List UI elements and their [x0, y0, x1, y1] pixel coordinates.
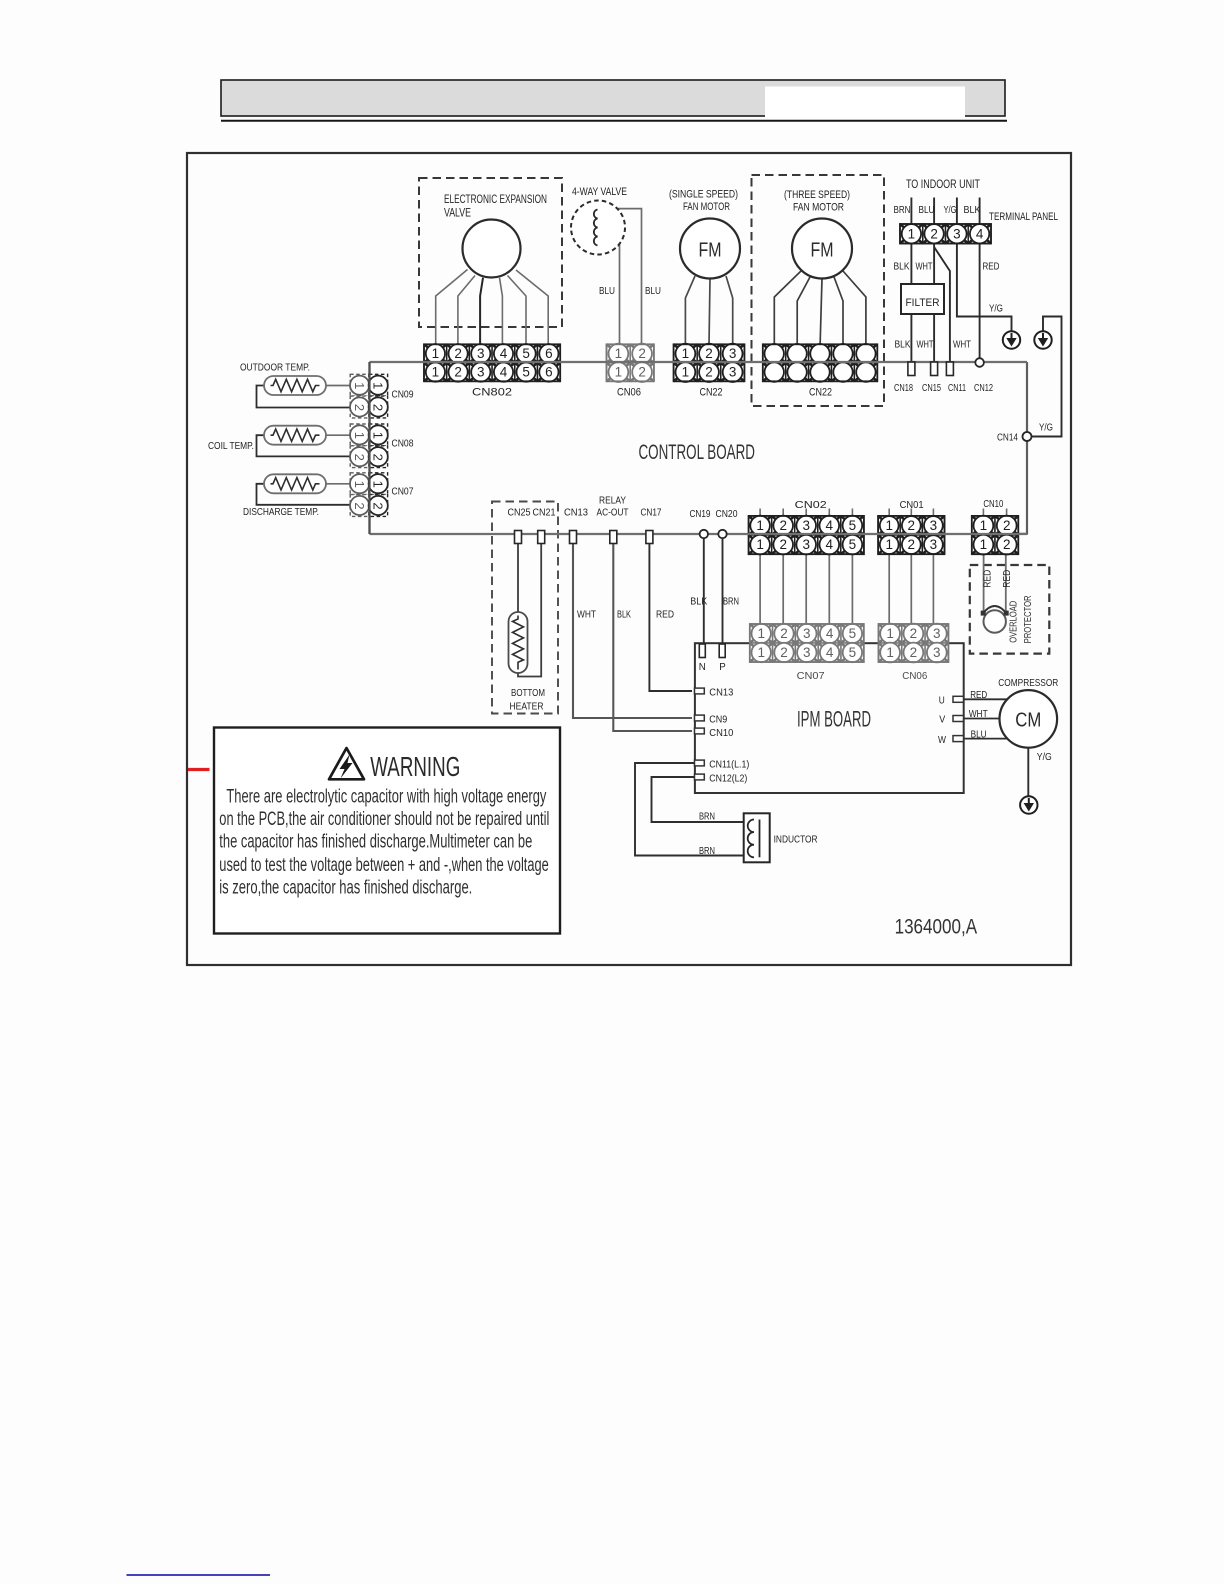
svg-text:CN12(L2): CN12(L2) — [709, 773, 747, 785]
control board left edge — [368, 362, 370, 534]
wire CN01 pin 3 to IPM CN06 — [932, 552, 934, 626]
IPM board outline — [695, 643, 964, 793]
wire CN02 pin 1 to IPM CN07 — [759, 552, 761, 626]
filter box — [901, 284, 944, 314]
wire CN19 to IPM pin N (BLK) — [703, 536, 705, 645]
wire U to compressor (RED) — [964, 698, 1008, 700]
svg-text:2: 2 — [371, 454, 386, 461]
svg-text:FM: FM — [699, 239, 722, 262]
svg-text:CN17: CN17 — [641, 508, 662, 519]
wire CN12(L2) to inductor (BRN) — [652, 777, 744, 822]
svg-text:3: 3 — [803, 626, 811, 641]
svg-text:W: W — [938, 734, 946, 746]
warning text — [219, 787, 549, 899]
svg-text:WHT: WHT — [577, 610, 596, 621]
svg-text:CN14: CN14 — [997, 432, 1018, 444]
connector CN08 — [350, 424, 388, 468]
warning box — [214, 728, 560, 934]
svg-text:TERMINAL PANEL: TERMINAL PANEL — [989, 211, 1058, 223]
svg-text:CN802: CN802 — [472, 387, 512, 399]
svg-text:5: 5 — [522, 365, 530, 380]
svg-text:VALVE: VALVE — [444, 206, 471, 220]
pin CN15 — [931, 362, 938, 376]
pin stub CN01 col 3 — [932, 509, 934, 518]
wire CN11(L.1) to inductor (BRN) — [635, 763, 744, 856]
svg-text:P: P — [719, 661, 726, 673]
wire terminal 4 to CN12 node (RED) — [979, 244, 981, 363]
IPM pin W — [953, 736, 964, 742]
svg-text:1364000,A: 1364000,A — [895, 916, 978, 939]
svg-text:4: 4 — [826, 518, 834, 533]
svg-text:OVERLOAD: OVERLOAD — [1008, 601, 1020, 643]
fan motor FM1 (single speed) — [680, 219, 740, 279]
label ELECTRONIC EXPANSION VALVE — [444, 192, 547, 220]
compressor CM — [1000, 690, 1058, 748]
svg-text:WHT: WHT — [916, 262, 933, 273]
svg-text:PROTECTOR: PROTECTOR — [1022, 595, 1034, 643]
diagram frame — [187, 153, 1071, 965]
pin stub CN02 col 5 — [851, 509, 853, 518]
svg-text:2: 2 — [779, 518, 787, 533]
svg-text:1: 1 — [352, 481, 367, 488]
svg-text:CN21: CN21 — [533, 508, 556, 519]
svg-text:(THREE SPEED): (THREE SPEED) — [784, 189, 850, 201]
svg-text:RED: RED — [983, 262, 1000, 273]
wire relay AC-OUT to IPM CN10 (BLK) — [613, 540, 692, 731]
wire bottom heater to CN21 — [518, 540, 541, 677]
wire 4-way valve to CN06 pin 2 (BLU) — [598, 209, 642, 345]
svg-text:ELECTRONIC EXPANSION: ELECTRONIC EXPANSION — [444, 192, 547, 206]
svg-text:5: 5 — [522, 346, 530, 361]
svg-text:3: 3 — [933, 645, 941, 660]
svg-text:CN06: CN06 — [617, 387, 641, 399]
connector CN10 — [972, 516, 1019, 555]
svg-text:1: 1 — [908, 226, 916, 241]
wire CN13 to IPM CN9 (WHT) — [573, 540, 692, 718]
pin relay AC-OUT — [610, 531, 617, 544]
wire EEV to CN802 pin 6 — [516, 270, 548, 345]
label RELAY AC-OUT — [597, 496, 629, 519]
wire CN02 pin 5 to IPM CN07 — [851, 552, 853, 626]
svg-text:2: 2 — [780, 645, 788, 660]
wire filter to CN15 (WHT) — [933, 314, 935, 362]
svg-text:FM: FM — [811, 239, 834, 262]
svg-text:N: N — [699, 661, 706, 673]
svg-text:Y/G: Y/G — [1037, 751, 1052, 763]
svg-text:BLK: BLK — [690, 597, 707, 608]
svg-text:BLK: BLK — [895, 340, 911, 351]
wire 4-way valve to CN06 pin 1 (BLU) — [598, 246, 620, 345]
connector CN07 — [350, 473, 388, 517]
connector CN22 (single speed) — [674, 344, 745, 382]
svg-text:BRN: BRN — [699, 811, 715, 823]
svg-text:2: 2 — [930, 226, 938, 241]
svg-text:BOTTOM: BOTTOM — [511, 687, 545, 699]
svg-text:1: 1 — [980, 537, 988, 552]
earth ground 1 — [1003, 331, 1020, 348]
svg-text:INDUCTOR: INDUCTOR — [774, 834, 818, 846]
wire EEV to CN802 pin 3 — [480, 278, 483, 345]
svg-text:5: 5 — [849, 537, 857, 552]
svg-text:1: 1 — [980, 518, 988, 533]
svg-text:4: 4 — [500, 365, 508, 380]
svg-text:4: 4 — [826, 537, 834, 552]
svg-text:5: 5 — [849, 518, 857, 533]
svg-text:BLU: BLU — [971, 729, 987, 740]
svg-text:3: 3 — [477, 365, 485, 380]
footer link line — [127, 1574, 271, 1576]
svg-text:OUTDOOR TEMP.: OUTDOOR TEMP. — [240, 362, 310, 374]
svg-text:3: 3 — [477, 346, 485, 361]
svg-text:BRN: BRN — [699, 845, 715, 857]
svg-text:BLK: BLK — [964, 205, 981, 216]
connector CN22 (three speed) — [763, 344, 878, 382]
svg-text:WHT: WHT — [969, 709, 988, 720]
wire coil temp sensor to pin 1 — [326, 434, 351, 436]
svg-text:RED: RED — [970, 690, 987, 701]
wire discharge temp sensor loop to pin 2 — [257, 484, 352, 505]
electronic expansion valve dashed box — [419, 178, 562, 327]
svg-text:1: 1 — [352, 432, 367, 439]
control board bottom edge — [370, 533, 1028, 535]
svg-text:Y/G: Y/G — [1039, 422, 1053, 434]
svg-text:HEATER: HEATER — [510, 701, 544, 713]
svg-text:5: 5 — [849, 626, 857, 641]
svg-text:Y/G: Y/G — [989, 304, 1003, 315]
svg-text:DISCHARGE TEMP.: DISCHARGE TEMP. — [243, 506, 319, 518]
svg-text:BRN: BRN — [894, 205, 911, 216]
pin CN18 — [908, 362, 915, 376]
wire V to compressor (WHT) — [964, 718, 1001, 720]
svg-text:1: 1 — [682, 346, 690, 361]
pin CN13 — [570, 531, 577, 544]
svg-text:5: 5 — [849, 645, 857, 660]
wire filter to CN18 (BLK) — [910, 314, 912, 362]
wire EEV to CN802 pin 5 — [508, 276, 527, 346]
header underline — [221, 120, 1007, 122]
wire EEV to CN802 pin 1 — [436, 270, 468, 346]
svg-text:CN06: CN06 — [902, 670, 927, 682]
svg-text:2: 2 — [352, 502, 367, 509]
svg-text:CN01: CN01 — [900, 499, 924, 511]
bottom heater element — [509, 612, 528, 673]
connector CN802 — [424, 344, 560, 382]
node CN19 — [700, 530, 708, 538]
svg-text:U: U — [939, 695, 945, 707]
bottom heater dashed box — [492, 502, 558, 714]
pin stub CN01 col 2 — [910, 509, 912, 518]
svg-text:WHT: WHT — [953, 340, 971, 351]
svg-text:1: 1 — [757, 626, 765, 641]
wire W to compressor (BLU) — [964, 738, 1008, 740]
svg-text:COIL TEMP.: COIL TEMP. — [208, 440, 254, 452]
svg-text:FAN MOTOR: FAN MOTOR — [683, 201, 730, 213]
node CN12 — [975, 358, 984, 367]
svg-text:AC-OUT: AC-OUT — [597, 508, 629, 519]
connector CN07 (IPM) — [750, 624, 864, 662]
svg-text:1: 1 — [432, 346, 440, 361]
node CN14 — [1023, 432, 1032, 441]
wire FM2 to CN22 pin 4 — [834, 277, 843, 345]
wire FM2 to CN22 pin 5 — [843, 271, 866, 345]
connector CN06 (IPM) — [879, 624, 949, 663]
svg-text:4: 4 — [500, 346, 508, 361]
svg-text:2: 2 — [638, 365, 646, 380]
svg-text:4: 4 — [826, 645, 834, 660]
wire FM2 to CN22 pin 2 — [797, 277, 810, 345]
svg-text:1: 1 — [756, 518, 764, 533]
pin CN21 — [538, 531, 545, 544]
svg-text:CN13: CN13 — [709, 687, 733, 699]
pin stub CN02 col 3 — [805, 509, 807, 518]
svg-text:1: 1 — [886, 626, 894, 641]
label BOTTOM HEATER — [510, 687, 546, 713]
svg-text:on the PCB,the air conditioner: on the PCB,the air conditioner should no… — [219, 809, 549, 830]
wire outdoor temp sensor loop to pin 2 — [257, 386, 352, 408]
wire CN02 pin 4 to IPM CN07 — [828, 552, 830, 626]
connector terminal panel — [900, 224, 991, 244]
IPM pin V — [953, 716, 964, 722]
svg-text:CN13: CN13 — [564, 508, 588, 519]
svg-text:3: 3 — [803, 645, 811, 660]
svg-text:3: 3 — [802, 518, 810, 533]
svg-text:CN08: CN08 — [392, 438, 414, 450]
svg-text:2: 2 — [371, 404, 386, 411]
svg-text:CN02: CN02 — [795, 499, 827, 511]
label SINGLE SPEED FAN MOTOR — [669, 189, 738, 213]
IPM pin CN9 — [695, 715, 705, 721]
svg-text:CN22: CN22 — [809, 387, 832, 399]
pin stub CN01 col 1 — [888, 509, 890, 518]
pin P — [719, 644, 725, 658]
svg-text:1: 1 — [615, 365, 623, 380]
svg-text:1: 1 — [352, 382, 367, 389]
pin N — [699, 644, 705, 658]
svg-text:used to test the voltage betwe: used to test the voltage between + and -… — [219, 855, 549, 876]
svg-text:6: 6 — [545, 365, 553, 380]
IPM pin CN10 — [695, 728, 705, 734]
svg-text:2: 2 — [908, 518, 916, 533]
wire CN02 pin 3 to IPM CN07 — [805, 552, 807, 626]
svg-text:(SINGLE SPEED): (SINGLE SPEED) — [669, 189, 738, 201]
control board top edge — [370, 361, 1028, 363]
pin stub CN02 col 2 — [782, 509, 784, 518]
wire compressor to earth (Y/G) — [1027, 748, 1029, 797]
svg-text:2: 2 — [910, 645, 918, 660]
wire CN01 pin 2 to IPM CN06 — [910, 552, 912, 626]
svg-text:2: 2 — [454, 365, 462, 380]
svg-text:2: 2 — [454, 346, 462, 361]
IPM pin CN13 — [695, 688, 705, 694]
svg-text:3: 3 — [930, 537, 938, 552]
svg-text:CN12: CN12 — [974, 383, 993, 394]
wire outdoor temp sensor to pin 1 — [326, 385, 351, 387]
svg-text:1: 1 — [886, 645, 894, 660]
svg-text:2: 2 — [780, 626, 788, 641]
node CN20 — [718, 530, 726, 538]
wire CN10 pin 2 to overload protector (RED) — [1005, 552, 1007, 614]
svg-text:3: 3 — [933, 626, 941, 641]
connector CN02 — [749, 516, 864, 555]
svg-text:BRN: BRN — [723, 597, 739, 608]
svg-text:is zero,the capacitor has fini: is zero,the capacitor has finished disch… — [219, 878, 472, 899]
svg-text:1: 1 — [371, 481, 386, 488]
three speed fan motor dashed box — [752, 175, 885, 406]
svg-text:4: 4 — [976, 226, 984, 241]
IPM pin U — [953, 696, 964, 702]
svg-text:1: 1 — [432, 365, 440, 380]
svg-text:3: 3 — [729, 365, 737, 380]
svg-text:WHT: WHT — [917, 340, 934, 351]
control board right edge — [1026, 362, 1028, 534]
svg-text:3: 3 — [802, 537, 810, 552]
wire EEV to CN802 pin 4 — [500, 278, 503, 345]
IPM pin CN12(L2) — [695, 774, 705, 780]
svg-text:2: 2 — [908, 537, 916, 552]
svg-text:CN22: CN22 — [700, 387, 723, 399]
svg-text:CN15: CN15 — [922, 383, 941, 394]
svg-text:Y/G: Y/G — [944, 205, 957, 216]
electronic expansion valve motor — [463, 220, 521, 278]
svg-text:2: 2 — [638, 346, 646, 361]
label OVERLOAD PROTECTOR — [1008, 595, 1035, 643]
svg-text:FAN MOTOR: FAN MOTOR — [793, 201, 844, 213]
wire FM1 to CN22 pin 1 — [685, 276, 695, 345]
svg-text:WARNING: WARNING — [370, 751, 460, 782]
pin CN25 — [515, 531, 522, 544]
svg-text:CN9: CN9 — [709, 714, 727, 726]
svg-text:1: 1 — [615, 346, 623, 361]
svg-text:1: 1 — [682, 365, 690, 380]
wire terminal 1 to filter (BLK) — [910, 244, 912, 286]
warning triangle — [329, 748, 364, 779]
svg-text:1: 1 — [885, 537, 893, 552]
red tick mark — [188, 768, 210, 771]
wire CN10 pin 1 to overload protector (RED) — [983, 552, 985, 614]
wire coil temp sensor loop to pin 2 — [257, 435, 352, 456]
svg-text:4-WAY VALVE: 4-WAY VALVE — [572, 186, 627, 198]
svg-text:CN11(L.1): CN11(L.1) — [709, 759, 749, 771]
svg-text:RED: RED — [982, 570, 993, 588]
wire terminal 3 to earth (Y/G) — [957, 244, 1012, 333]
svg-text:CN09: CN09 — [392, 389, 414, 401]
connector CN09 — [350, 374, 388, 418]
wire to indoor unit terminal 3 — [956, 198, 958, 226]
wire to indoor unit terminal 4 — [979, 198, 981, 226]
svg-text:CONTROL BOARD: CONTROL BOARD — [639, 441, 756, 464]
wire FM2 to CN22 pin 1 — [774, 271, 801, 345]
thermistor coil temp — [264, 426, 326, 445]
pin stub CN10 col 2 — [1006, 509, 1008, 518]
svg-text:1: 1 — [757, 645, 765, 660]
earth ground 2 — [1034, 331, 1051, 348]
pin CN17 — [646, 531, 653, 544]
wire CN01 pin 1 to IPM CN06 — [888, 552, 890, 626]
wire to indoor unit terminal 1 — [910, 198, 912, 226]
svg-text:CN20: CN20 — [716, 509, 738, 520]
wire terminal 2 to filter (WHT) — [933, 244, 935, 286]
inductor — [744, 813, 770, 862]
pin stub CN02 col 4 — [828, 509, 830, 518]
svg-text:CN25: CN25 — [508, 508, 531, 519]
svg-text:CN18: CN18 — [894, 383, 913, 394]
svg-text:BLU: BLU — [599, 286, 615, 297]
wire CN02 pin 2 to IPM CN07 — [782, 552, 784, 626]
pin stub CN02 col 1 — [759, 509, 761, 518]
svg-text:1: 1 — [371, 382, 386, 389]
svg-text:CN10: CN10 — [983, 498, 1003, 510]
wire to indoor unit terminal 2 — [933, 198, 935, 226]
svg-text:BLU: BLU — [919, 205, 935, 216]
wire CN17 to IPM CN13 (RED) — [649, 540, 692, 691]
svg-text:2: 2 — [352, 454, 367, 461]
wire FM1 to CN22 pin 3 — [726, 276, 733, 345]
svg-text:3: 3 — [953, 226, 961, 241]
wire EEV to CN802 pin 2 — [458, 276, 475, 346]
svg-text:3: 3 — [729, 346, 737, 361]
svg-text:V: V — [939, 714, 945, 726]
earth ground 3 — [1020, 796, 1037, 813]
svg-text:1: 1 — [885, 518, 893, 533]
svg-text:RED: RED — [656, 610, 674, 621]
svg-text:1: 1 — [756, 537, 764, 552]
connector CN01 — [878, 516, 944, 554]
svg-text:1: 1 — [371, 432, 386, 439]
label THREE SPEED FAN MOTOR — [784, 189, 850, 213]
svg-text:RED: RED — [1002, 570, 1013, 588]
thermistor discharge temp — [264, 474, 326, 493]
connector CN06 (4-way valve) — [607, 344, 654, 382]
pin stub CN10 col 1 — [982, 509, 984, 518]
svg-text:CM: CM — [1015, 709, 1041, 732]
thermistor outdoor temp — [264, 376, 326, 395]
4-way valve coil — [571, 201, 625, 255]
svg-text:BLK: BLK — [894, 262, 910, 273]
header gray bar — [221, 80, 1005, 118]
svg-text:2: 2 — [779, 537, 787, 552]
overload protector dashed box — [970, 565, 1050, 654]
svg-text:BLK: BLK — [617, 610, 631, 621]
svg-text:BLU: BLU — [645, 286, 661, 297]
overload protector element — [981, 606, 1009, 633]
control board left edge over connectors — [368, 362, 370, 534]
svg-text:CN11: CN11 — [948, 383, 966, 394]
wire FM2 to CN22 pin 3 — [820, 279, 822, 346]
svg-text:4: 4 — [826, 626, 834, 641]
svg-text:CN10: CN10 — [709, 727, 733, 739]
IPM pin CN11(L.1) — [695, 760, 705, 766]
svg-text:the capacitor has finished dis: the capacitor has finished discharge.Mul… — [219, 832, 532, 853]
svg-text:3: 3 — [930, 518, 938, 533]
fan motor FM2 (three speed) — [792, 219, 852, 279]
wire terminal 2 branch to CN11 (WHT) — [934, 247, 950, 362]
svg-text:6: 6 — [545, 346, 553, 361]
svg-text:TO INDOOR UNIT: TO INDOOR UNIT — [906, 179, 980, 191]
svg-text:2: 2 — [371, 502, 386, 509]
svg-text:2: 2 — [910, 626, 918, 641]
svg-text:FILTER: FILTER — [906, 297, 940, 309]
wire CN20 to IPM pin P (BRN) — [722, 536, 724, 645]
svg-text:2: 2 — [705, 346, 713, 361]
svg-text:IPM BOARD: IPM BOARD — [797, 707, 871, 732]
svg-text:2: 2 — [1003, 537, 1011, 552]
svg-text:RELAY: RELAY — [599, 496, 626, 507]
svg-text:2: 2 — [705, 365, 713, 380]
wire discharge temp sensor to pin 1 — [326, 483, 351, 485]
svg-text:COMPRESSOR: COMPRESSOR — [998, 677, 1058, 689]
svg-text:2: 2 — [1003, 518, 1011, 533]
wire CN14 to CN10 — [1018, 437, 1027, 534]
